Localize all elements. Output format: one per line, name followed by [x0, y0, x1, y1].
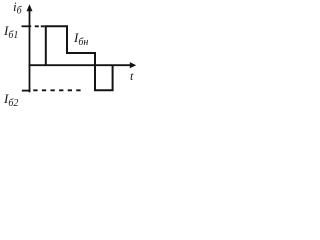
svg-text:Iб2: Iб2 — [3, 91, 18, 109]
waveform pulse train — [46, 26, 113, 90]
dashed level line I_б1 with axis tick — [22, 25, 45, 27]
svg-text:t: t — [130, 69, 134, 83]
svg-text:Iбн: Iбн — [73, 30, 88, 48]
x-axis t — [29, 62, 137, 68]
dashed level line I_б2 with axis tick — [22, 89, 84, 91]
y-axis iБ — [27, 4, 33, 92]
svg-text:iб: iб — [13, 0, 23, 17]
svg-text:Iб1: Iб1 — [3, 23, 18, 41]
